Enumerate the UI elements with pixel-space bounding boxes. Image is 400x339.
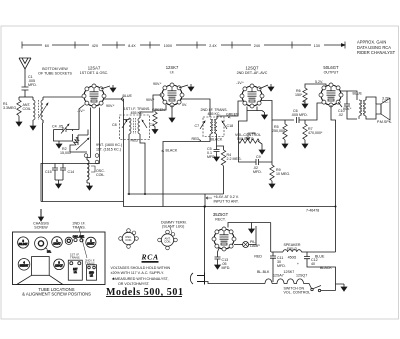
ground — [269, 181, 275, 188]
gang condenser rect — [32, 257, 50, 276]
wire IF1 primary bottom to AVC bus — [128, 134, 130, 194]
wire gain ruler line — [22, 44, 345, 46]
switch S1 — [311, 286, 321, 292]
svg-text:3.3MEG: 3.3MEG — [3, 106, 16, 110]
ground — [268, 84, 274, 91]
svg-text:I.F.: I.F. — [90, 275, 94, 278]
socket 35Z5GT — [18, 259, 30, 271]
T2 secondary — [364, 100, 366, 116]
svg-text:470,000*: 470,000* — [308, 131, 323, 135]
AC plug — [190, 273, 204, 285]
wire V2 cathode to R3 — [155, 105, 166, 113]
svg-text:MFD.: MFD. — [277, 264, 286, 268]
tube V3 12SQ7 — [237, 66, 268, 109]
svg-text:50L6GT: 50L6GT — [19, 243, 28, 246]
svg-text:TRANS.: TRANS. — [72, 226, 85, 230]
svg-text:BLACK: BLACK — [320, 266, 332, 270]
svg-text:12SQ7: 12SQ7 — [296, 274, 307, 278]
label osc coil socket — [125, 235, 132, 242]
svg-text:OUTPUT: OUTPUT — [324, 71, 340, 75]
svg-text:+: + — [297, 262, 299, 266]
svg-text:500,000 Ω: 500,000 Ω — [237, 137, 254, 141]
wire V4 screen — [338, 102, 342, 107]
caption tube locations — [22, 287, 91, 297]
svg-text:35Z5GT: 35Z5GT — [20, 265, 29, 268]
svg-text:±20% WITH 117 V. A.C. SUPPLY.: ±20% WITH 117 V. A.C. SUPPLY. — [111, 271, 164, 275]
wire heater line — [205, 282, 266, 284]
label PM SPK — [377, 120, 392, 124]
wire T2 secondary to voice coil — [366, 97, 376, 119]
svg-text:12SQ7: 12SQ7 — [245, 66, 259, 71]
label 42X — [89, 42, 102, 48]
svg-text:C9: C9 — [256, 155, 261, 159]
wire secondary bottom down (AVC line) — [42, 120, 45, 164]
trimmer C4 — [61, 124, 73, 134]
tube V5 35Z5GT — [212, 212, 236, 251]
note alignment freq — [96, 143, 122, 152]
filament 50L6GT — [294, 279, 304, 284]
resistor R3 — [153, 112, 157, 126]
wire V4 top to R6 — [305, 84, 326, 88]
resistor R7 — [303, 120, 307, 141]
svg-text:✱MEASURED WITH CHANALYST,: ✱MEASURED WITH CHANALYST, — [112, 277, 169, 281]
wire lamp to field line — [249, 226, 256, 245]
RCA trademark bar — [142, 261, 159, 263]
ground — [215, 262, 221, 269]
wire bus left riser — [41, 164, 43, 202]
IF2 shield box dashed — [203, 117, 224, 137]
svg-text:GREEN: GREEN — [226, 113, 239, 117]
svg-text:LAMP: LAMP — [250, 244, 260, 248]
svg-text:-1V.*: -1V.* — [236, 81, 244, 85]
svg-text:BLACK: BLACK — [166, 149, 178, 153]
wire B- bus left — [41, 201, 124, 203]
svg-text:13X: 13X — [314, 44, 321, 48]
wire osc coil bottom — [87, 182, 90, 184]
svg-text:C14: C14 — [68, 170, 75, 174]
svg-text:RECT.: RECT. — [215, 218, 226, 222]
svg-text:& ALIGNMENT SCREW POSITIONS: & ALIGNMENT SCREW POSITIONS — [22, 292, 91, 297]
label R2 value — [60, 147, 71, 155]
ground V3 cathode — [262, 112, 268, 119]
svg-text:TRANS.: TRANS. — [85, 261, 95, 265]
wire pot left to C9 line — [239, 141, 257, 162]
IF1 shield box dashed — [120, 115, 150, 140]
wire V5 plate up to bus — [228, 223, 271, 228]
svg-text:C4: C4 — [52, 125, 57, 129]
wire wiper to C9 — [252, 132, 256, 134]
1st IF trans rect — [68, 260, 82, 280]
svg-text:250,000: 250,000 — [272, 129, 285, 133]
svg-text:MFD.: MFD. — [222, 266, 231, 270]
junction dots — [128, 193, 337, 208]
IF2 primary winding — [210, 119, 212, 134]
svg-text:BLUE: BLUE — [353, 92, 363, 96]
svg-text:V.C.: V.C. — [382, 100, 389, 104]
wire AVC bus — [128, 193, 224, 195]
svg-text:150*: 150* — [295, 93, 303, 97]
filament 12SA7 — [265, 279, 272, 284]
svg-text:7-46478: 7-46478 — [306, 209, 319, 213]
svg-text:VOL. CONTROL: VOL. CONTROL — [284, 291, 311, 295]
svg-text:.02: .02 — [338, 113, 343, 117]
svg-text:100X: 100X — [164, 44, 173, 48]
svg-text:35Z5GT: 35Z5GT — [213, 212, 229, 217]
svg-text:90V.*: 90V.* — [343, 107, 352, 111]
svg-text:I.F.: I.F. — [170, 71, 175, 75]
label 6X — [42, 42, 52, 48]
label 2nd IF small — [85, 259, 95, 266]
tick marks — [22, 42, 345, 49]
wire caps common to ground — [55, 180, 63, 181]
wire C9 to R9 and up — [262, 120, 272, 165]
wiper arrow — [246, 133, 252, 140]
resistor R4 — [221, 150, 225, 166]
output transformer T2 primary — [359, 100, 361, 116]
svg-text:8.4X: 8.4X — [128, 44, 136, 48]
speaker — [376, 98, 390, 120]
wire IF2 secondary bottom BLACK — [217, 134, 224, 150]
svg-text:BLACK: BLACK — [211, 138, 223, 142]
wire V2 suppressor to ground — [171, 105, 173, 115]
wire left drop from bus to plug — [204, 207, 206, 277]
label ANT coil — [23, 103, 31, 111]
ground — [30, 123, 36, 130]
svg-text:42X: 42X — [92, 44, 99, 48]
IF1 primary winding — [129, 118, 131, 134]
wire V4 cathode down to B+ line — [331, 105, 336, 252]
label 13X — [311, 42, 324, 48]
svg-text:+6.4V. AT 0.2 V.: +6.4V. AT 0.2 V. — [214, 195, 239, 199]
svg-text:DR.: DR. — [47, 251, 51, 254]
svg-text:11T. (1615 KC.): 11T. (1615 KC.) — [96, 148, 121, 152]
tube V4 50L6GT — [319, 65, 343, 107]
svg-text:15,000: 15,000 — [60, 151, 71, 155]
svg-text:FIELD: FIELD — [287, 247, 298, 251]
gang capacitor arrow osc — [76, 138, 89, 150]
wire R2 to osc coil — [70, 130, 88, 153]
wire V3 top to ground — [259, 85, 268, 89]
svg-text:2.2 MEG.: 2.2 MEG. — [227, 157, 242, 161]
ground — [152, 127, 158, 134]
tube V1 12SA7 — [80, 66, 109, 109]
label osc coil — [96, 169, 105, 177]
svg-text:6X: 6X — [45, 44, 50, 48]
label C6 value — [291, 109, 308, 117]
svg-text:OR VOLTOHMYST.: OR VOLTOHMYST. — [118, 282, 150, 286]
junction arrow black — [162, 150, 165, 152]
label 8.4X — [125, 42, 140, 48]
svg-text:455 KC.: 455 KC. — [208, 112, 221, 116]
ground — [56, 141, 62, 148]
svg-text:RED: RED — [254, 255, 262, 259]
trimmer C18 — [222, 121, 227, 129]
svg-text:C15: C15 — [45, 170, 52, 174]
wire V5 cathode to C13 — [218, 248, 220, 257]
svg-text:RED: RED — [192, 137, 200, 141]
svg-text:COIL: COIL — [23, 107, 31, 111]
wire V3 diode to vol control — [239, 107, 258, 142]
svg-text:INPUT TO ANT.: INPUT TO ANT. — [214, 200, 239, 204]
svg-text:24X: 24X — [254, 44, 261, 48]
svg-text:.05: .05 — [58, 125, 63, 129]
resistor R1 — [17, 97, 25, 119]
wire AVC stub to bus C — [204, 194, 206, 207]
capacitor C13 — [215, 257, 221, 262]
svg-text:RIDER CHANALYST: RIDER CHANALYST — [357, 50, 396, 55]
tube V2 12SK7 — [160, 65, 184, 107]
svg-text:40: 40 — [311, 262, 315, 266]
label speaker field — [284, 243, 301, 260]
label C10 value — [338, 109, 345, 117]
svg-text:COIL: COIL — [164, 240, 171, 244]
capacitor C5 — [214, 149, 220, 154]
pin circle 6 — [95, 154, 99, 164]
speaker field winding — [271, 250, 336, 252]
filament 12SQ7 — [284, 279, 294, 284]
wire T2 primary bottom to B+ — [358, 116, 360, 119]
wire V5 filament to pilot lamp — [234, 244, 243, 246]
svg-text:-1V.*: -1V.* — [77, 109, 85, 113]
svg-text:TRANS.: TRANS. — [70, 256, 80, 260]
capacitor C11 electrolytic — [270, 252, 276, 282]
label switch — [284, 287, 311, 295]
svg-text:12SK7: 12SK7 — [166, 65, 179, 70]
svg-text:9½T. (1600 KC.): 9½T. (1600 KC.) — [96, 143, 122, 147]
ground — [259, 147, 265, 154]
label 2ND IF TRANS — [200, 108, 227, 116]
label R9 value — [276, 168, 290, 176]
svg-text:COIL: COIL — [125, 238, 132, 242]
wire V1 plate to IF1 (BLUE) — [104, 99, 124, 202]
wire IF2 primary bottom RED — [163, 134, 210, 206]
ground — [302, 101, 308, 108]
svg-text:0V.: 0V. — [182, 103, 187, 107]
wire R4 to AVC bus — [223, 166, 225, 194]
label 24X — [251, 42, 264, 48]
svg-text:12SQ7: 12SQ7 — [55, 265, 63, 268]
svg-text:MFD.: MFD. — [207, 155, 216, 159]
socket 12SQ7 — [54, 259, 65, 270]
svg-text:10 MEG.: 10 MEG. — [276, 172, 290, 176]
svg-text:12SA7: 12SA7 — [53, 242, 61, 245]
svg-text:90V.*: 90V.* — [146, 98, 155, 102]
resistor R2 diagonal — [73, 137, 78, 145]
svg-text:.005 MFD.: .005 MFD. — [291, 113, 308, 117]
capacitor C15 — [52, 164, 58, 181]
label R4 value — [227, 153, 242, 161]
svg-text:APPROX. GAIN: APPROX. GAIN — [357, 40, 386, 45]
svg-text:OSC. ANT.: OSC. ANT. — [73, 236, 85, 239]
svg-text:COIL: COIL — [96, 173, 104, 177]
label vol control — [235, 133, 261, 141]
pot right end to ground — [258, 141, 262, 147]
label pilot lamp — [250, 240, 260, 248]
pilot light — [65, 237, 72, 244]
svg-text:90V.*: 90V.* — [106, 104, 115, 108]
label C11 value — [277, 256, 286, 268]
junction arrow green — [228, 116, 231, 118]
label C5 value — [207, 147, 216, 159]
padder capacitor C4 loop — [54, 130, 73, 142]
wire V3 cathode to ground — [257, 111, 264, 113]
wire V1 osc grid down — [99, 108, 101, 164]
ground — [282, 141, 288, 148]
wire V2 top to ground — [179, 85, 188, 88]
capacitor C10 — [344, 91, 357, 119]
potentiometer R2 vol control — [239, 139, 260, 143]
wire C6 to V4 grid — [299, 103, 322, 120]
wire antenna to coil — [25, 96, 33, 98]
svg-text:C18: C18 — [227, 124, 234, 128]
label 100X — [160, 42, 176, 48]
svg-text:90V.*: 90V.* — [153, 82, 162, 86]
wire V3 plate to C6 line — [261, 101, 294, 121]
wire B- bus main — [124, 202, 336, 207]
label C13 value — [222, 258, 231, 270]
IF2 core — [213, 119, 215, 134]
svg-text:C7: C7 — [195, 124, 200, 128]
T2 core — [362, 100, 364, 116]
wire IF1 primary top stub — [124, 118, 130, 120]
svg-text:BLUE: BLUE — [123, 94, 133, 98]
svg-text:RED: RED — [131, 139, 139, 143]
capacitor C12 electrolytic — [304, 252, 336, 291]
pilot lamp — [243, 242, 249, 248]
antenna — [19, 58, 31, 87]
svg-text:50L6GT: 50L6GT — [323, 65, 339, 70]
junction arrow blue — [121, 97, 124, 102]
label R7 value — [308, 127, 323, 135]
svg-text:12SK7: 12SK7 — [87, 243, 95, 246]
leader dummy term — [170, 227, 172, 233]
resistor R5 — [283, 120, 287, 141]
svg-text:SCREW: SCREW — [34, 226, 48, 230]
label 2.4X — [206, 42, 221, 48]
svg-text:455 KC.: 455 KC. — [131, 111, 144, 115]
wire R6 bottom — [304, 100, 306, 101]
label R5 value — [272, 125, 285, 133]
trimmer C7 — [200, 121, 205, 129]
label C9 value — [253, 155, 262, 174]
label 1st IF trans pointer — [70, 253, 80, 260]
voltage note — [111, 266, 171, 286]
ground — [169, 115, 175, 122]
svg-text:12SA7: 12SA7 — [273, 274, 284, 278]
junction dot — [204, 206, 206, 208]
capacitor C9 coupling — [256, 159, 262, 165]
model title — [106, 287, 184, 298]
note +6.4V input — [206, 195, 239, 204]
osc coil L2 — [87, 158, 95, 184]
label 1ST IF TRANS — [124, 107, 150, 115]
label 2nd IF trans pointer — [72, 222, 85, 230]
trimmer C9 — [142, 120, 147, 128]
svg-text:1ST DET. & OSC.: 1ST DET. & OSC. — [80, 71, 109, 75]
ground — [87, 183, 93, 190]
svg-text:BOTTOM VIEW: BOTTOM VIEW — [42, 67, 68, 71]
wire V4 plate BLUE to output transformer — [340, 91, 357, 100]
trimmer C2 arrow — [39, 103, 48, 117]
label dummy term — [161, 221, 187, 229]
wire AVC vertical join — [43, 164, 100, 202]
svg-text:MFD.: MFD. — [28, 83, 37, 87]
svg-text:RCA: RCA — [141, 253, 159, 262]
label C4 — [52, 125, 63, 129]
wire coil secondary to V1 grid — [43, 96, 82, 98]
resistor R9 — [270, 165, 274, 181]
wire IF2 secondary top to V3 grid (GREEN) — [217, 101, 243, 119]
2nd IF trans rect — [87, 265, 97, 280]
capacitor C1 — [22, 87, 29, 97]
socket 12SK7 — [86, 237, 96, 247]
wire IF1 secondary bottom down — [140, 134, 145, 194]
wire V2 plate to IF2 — [180, 99, 210, 117]
IF2 secondary winding — [215, 119, 217, 134]
svg-text:450Ω: 450Ω — [288, 256, 297, 260]
svg-text:2ND DET.-AF.-AVC: 2ND DET.-AF.-AVC — [237, 71, 268, 75]
filament 12SK7 — [272, 279, 284, 284]
svg-text:P.M.SPK.: P.M.SPK. — [377, 120, 392, 124]
label ant coil socket — [164, 237, 171, 244]
wire padder stub — [58, 140, 60, 142]
ground — [16, 119, 22, 126]
wire switch to black riser — [321, 284, 344, 291]
socket 50L6GT — [18, 237, 29, 248]
svg-text:OF TUBE SOCKETS: OF TUBE SOCKETS — [38, 72, 72, 76]
capacitor C6 — [297, 117, 300, 123]
value C1 .005 MFD — [28, 75, 37, 87]
ground — [302, 141, 308, 148]
pin circle 1 — [84, 154, 88, 158]
ground — [110, 85, 116, 92]
leader 2nd IF label — [79, 228, 87, 258]
wire IF1 secondary top to V2 grid (GREEN) — [140, 95, 162, 118]
svg-text:2.4X: 2.4X — [209, 44, 217, 48]
label C12 value — [297, 258, 318, 266]
osc ant adj screws — [73, 236, 85, 242]
ground — [56, 181, 62, 188]
wire R9 bottom — [271, 180, 273, 182]
note approx gain data — [357, 40, 396, 56]
wire right drop to speaker field — [270, 223, 272, 253]
trimmer C8 — [122, 120, 127, 128]
IF1 secondary winding — [138, 118, 140, 134]
loop antenna trapezoid — [17, 275, 63, 284]
location box — [13, 232, 106, 285]
arrowhead at right tick — [341, 44, 345, 47]
svg-text:5.2V.: 5.2V. — [315, 80, 323, 84]
IF1 core — [134, 118, 136, 134]
wire gnd stub — [251, 223, 253, 227]
label R6 value — [295, 89, 303, 97]
note bottom view of tube sockets — [38, 67, 72, 76]
svg-text:12SK7: 12SK7 — [284, 270, 295, 274]
svg-text:MFD.: MFD. — [253, 170, 262, 174]
svg-text:BL-BLK: BL-BLK — [257, 270, 270, 274]
chassis screw arrow — [39, 209, 44, 221]
svg-text:12SA7: 12SA7 — [88, 66, 101, 71]
wire to switch — [304, 284, 312, 289]
dial drive — [35, 237, 52, 254]
svg-text:VOLTAGES SHOULD HOLD WITHIN: VOLTAGES SHOULD HOLD WITHIN — [111, 266, 171, 270]
capacitor C14 — [60, 164, 66, 181]
junction arrow red — [199, 139, 202, 141]
osc coil socket — [119, 229, 139, 249]
svg-text:(SLANT LUG): (SLANT LUG) — [162, 225, 184, 229]
antenna coil L1 — [33, 97, 43, 123]
resistor R6 — [303, 88, 307, 102]
